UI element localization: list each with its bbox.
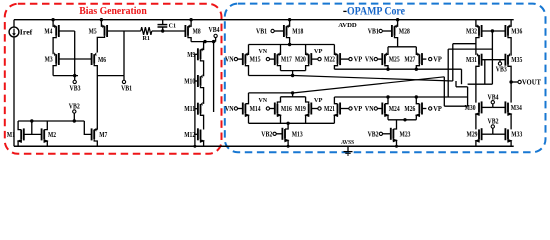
- svg-text:M29: M29: [467, 130, 478, 139]
- svg-text:M10: M10: [184, 77, 195, 86]
- svg-text:M34: M34: [511, 103, 522, 112]
- svg-text:M4: M4: [44, 27, 52, 36]
- svg-text:M14: M14: [250, 104, 261, 113]
- svg-text:M5: M5: [89, 27, 97, 36]
- svg-text:M15: M15: [250, 55, 261, 64]
- svg-text:VN: VN: [259, 48, 268, 55]
- svg-text:R1: R1: [142, 35, 150, 42]
- svg-text:VN: VN: [225, 55, 234, 64]
- svg-text:M16: M16: [281, 104, 292, 113]
- svg-text:VB4: VB4: [209, 25, 220, 34]
- svg-text:M27: M27: [404, 55, 415, 64]
- svg-text:M13: M13: [292, 129, 303, 138]
- svg-text:VB4: VB4: [488, 92, 499, 101]
- svg-text:M8: M8: [193, 27, 201, 36]
- svg-text:VB3: VB3: [496, 65, 507, 74]
- svg-text:VP: VP: [354, 104, 363, 113]
- svg-text:M24: M24: [389, 104, 400, 113]
- svg-text:VB2: VB2: [261, 129, 272, 138]
- svg-text:M35: M35: [511, 55, 522, 64]
- svg-text:M9: M9: [187, 50, 195, 59]
- svg-text:VN: VN: [365, 104, 374, 113]
- svg-text:M21: M21: [324, 104, 335, 113]
- svg-text:VN: VN: [365, 55, 374, 64]
- svg-text:M20: M20: [295, 55, 306, 64]
- svg-text:VP: VP: [314, 97, 323, 104]
- svg-text:M1: M1: [7, 130, 15, 139]
- svg-text:M6: M6: [98, 55, 106, 64]
- svg-text:OPAMP Core: OPAMP Core: [347, 6, 405, 18]
- svg-text:M11: M11: [184, 104, 195, 113]
- svg-text:M31: M31: [466, 55, 477, 64]
- svg-text:M33: M33: [511, 130, 522, 139]
- svg-text:M36: M36: [511, 26, 522, 35]
- svg-text:M23: M23: [400, 129, 411, 138]
- svg-text:VB1: VB1: [121, 83, 132, 92]
- svg-text:VP: VP: [314, 48, 323, 55]
- svg-text:M7: M7: [99, 130, 107, 139]
- svg-text:VN: VN: [259, 97, 268, 104]
- svg-text:VB2: VB2: [488, 117, 499, 126]
- svg-text:AVDD: AVDD: [338, 22, 357, 29]
- svg-text:VP: VP: [354, 55, 363, 64]
- svg-text:VB3: VB3: [70, 83, 81, 92]
- svg-text:Bias Generation: Bias Generation: [79, 6, 147, 17]
- svg-text:VB1: VB1: [256, 28, 268, 35]
- svg-text:M12: M12: [184, 130, 195, 139]
- svg-text:M3: M3: [45, 55, 53, 64]
- svg-text:VB2: VB2: [368, 129, 379, 138]
- svg-text:M26: M26: [404, 104, 415, 113]
- svg-text:VB1: VB1: [368, 26, 379, 35]
- svg-text:M32: M32: [466, 26, 477, 35]
- svg-text:M17: M17: [281, 55, 292, 64]
- svg-text:M28: M28: [399, 26, 410, 35]
- svg-text:AVSS: AVSS: [341, 139, 354, 146]
- svg-text:M2: M2: [48, 130, 56, 139]
- svg-text:M18: M18: [292, 26, 303, 35]
- svg-text:VN: VN: [225, 104, 234, 113]
- svg-text:Iref: Iref: [20, 28, 33, 36]
- svg-text:M19: M19: [295, 104, 306, 113]
- svg-text:M25: M25: [389, 55, 400, 64]
- svg-text:VP: VP: [433, 55, 442, 64]
- svg-text:M30: M30: [465, 103, 476, 112]
- svg-text:VP: VP: [433, 104, 442, 113]
- svg-text:VB2: VB2: [69, 101, 80, 110]
- svg-text:M22: M22: [324, 55, 335, 64]
- svg-text:VOUT: VOUT: [522, 79, 541, 87]
- svg-text:C1: C1: [169, 23, 177, 30]
